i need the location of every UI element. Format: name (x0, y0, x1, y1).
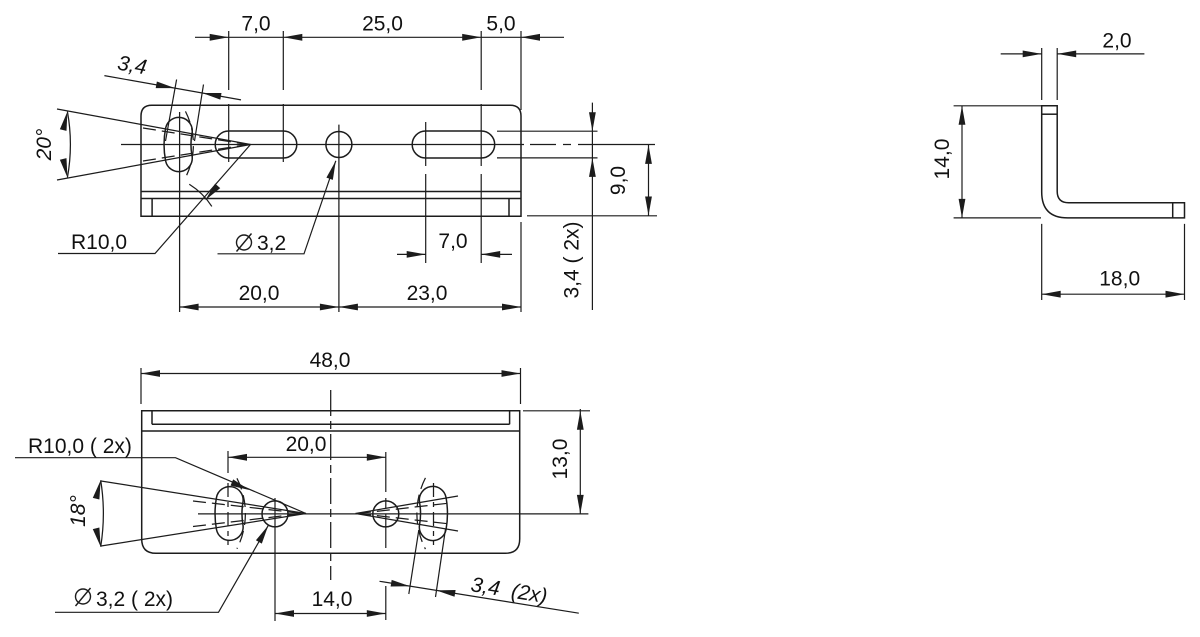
top dimension line 7.0/25.0/5.0 (195, 36, 564, 38)
front hole 3.2 (326, 132, 352, 158)
side view L profile (1042, 106, 1185, 218)
20.0/14.0 extension right hole centerline (385, 452, 387, 620)
20deg cone lower line (57, 145, 251, 181)
3.4(2x) ext line 1 (409, 530, 419, 594)
arrow 20.0 bottom right (367, 454, 386, 461)
bottom edge extension for 9.0 (527, 215, 657, 217)
arrow 7.0 left (210, 34, 229, 41)
2.0 dim line tails (1001, 53, 1145, 55)
front slot right obround (412, 131, 495, 158)
arrow 14.0 right (367, 610, 386, 617)
14.0 extension lines (954, 106, 1041, 218)
svg-text:18°: 18° (67, 495, 90, 527)
bottom view bend line (inner) (152, 423, 510, 425)
diameter symbol for 3,2 (237, 235, 252, 250)
20.0 / 23.0 dim line (180, 306, 521, 308)
arrow 18deg arc bottom (93, 528, 104, 548)
18.0 extension lines (1042, 224, 1185, 300)
extension line right edge bottom (520, 222, 522, 312)
arrow 9.0 bottom (645, 197, 652, 216)
3.4 slanted dim line (104, 76, 241, 100)
svg-text:3,2 ( 2x): 3,2 ( 2x) (96, 588, 173, 611)
bottom view right tab tick (509, 411, 511, 425)
arrow 25.0 left / 7.0 right (283, 34, 302, 41)
right dashed line lower (358, 514, 452, 525)
left hole centerline extension (274, 498, 276, 621)
left slot vertical center dashes (227, 483, 229, 545)
svg-text:14,0: 14,0 (312, 588, 353, 611)
arrow 14.0 left (275, 610, 294, 617)
right dashed line upper (358, 503, 452, 514)
bottom view left tab tick (151, 411, 153, 425)
18deg cone right lower line (356, 514, 459, 532)
arrow 48.0 right (502, 370, 521, 377)
arrow 18.0 left (1042, 291, 1061, 298)
svg-text:20,0: 20,0 (239, 282, 280, 305)
bottom view bend line 2 (142, 430, 520, 432)
svg-text:9,0: 9,0 (607, 166, 630, 195)
arrow 13.0 top (577, 411, 584, 430)
arrow 3.4(2x) slot right (436, 587, 456, 597)
48.0 extension left (140, 368, 142, 404)
side top tab tick (1042, 113, 1058, 115)
svg-text:3,4: 3,4 (116, 52, 149, 80)
arrow 18deg arc top (93, 479, 104, 499)
bottom curved slot left (215, 487, 243, 541)
front curved slot R10 (164, 117, 192, 171)
arrow 3.4 lower (202, 90, 222, 100)
arrow R10.0 leader (203, 184, 221, 203)
bottom curved slot right (419, 486, 447, 540)
svg-text:R10,0 ( 2x): R10,0 ( 2x) (28, 435, 132, 458)
front horizontal centerline (121, 144, 524, 146)
arrow 14.0 side bottom (959, 199, 966, 218)
3.4(2x) vertical dim line (591, 103, 593, 310)
svg-text:3,4 ( 2x): 3,4 ( 2x) (561, 221, 584, 298)
arrow 48.0 left (141, 370, 160, 377)
arrow 18.0 right (1166, 291, 1185, 298)
bottom hole left (262, 501, 288, 527)
14.0 dim line (275, 613, 386, 615)
3.4 slot width ext line 1 (166, 80, 177, 142)
right dashed pitch arc (417, 478, 426, 549)
front left tab tick (151, 199, 153, 217)
dia3.2(2x) leader (55, 525, 268, 612)
svg-text:23,0: 23,0 (407, 282, 448, 305)
front bend line upper (141, 191, 521, 193)
svg-text:7,0: 7,0 (241, 13, 270, 36)
13.0 top extension (523, 410, 590, 412)
20deg angle arc (67, 112, 70, 178)
48.0 extension right (520, 368, 522, 404)
slot2 edge extensions right (497, 131, 598, 158)
18deg left dashed line upper (193, 501, 303, 514)
3.4 slot width ext line 2 (195, 85, 204, 142)
bottom vertical centerline (330, 390, 332, 580)
20.0 dim line bottom view (228, 456, 386, 458)
3.4(2x) ext line 2 (436, 529, 446, 597)
14.0 dim line (961, 106, 963, 218)
arrow dia3.2 leader (326, 160, 339, 180)
arrow R10.0(2x) leader (230, 479, 250, 493)
9.0 dim line (648, 145, 650, 216)
arrow 7.0 lower left (407, 251, 426, 258)
arrow 23.0 left (339, 304, 358, 311)
arrow 20deg arc bottom (60, 158, 71, 178)
3.4(2x) dim line (380, 581, 579, 613)
48.0 dim line (141, 373, 521, 375)
bottom horizontal centerline (198, 513, 588, 515)
svg-text:5,0: 5,0 (486, 13, 515, 36)
front hole vertical centerline / dim extension (338, 125, 340, 312)
svg-text:25,0: 25,0 (362, 13, 403, 36)
svg-text:R10,0: R10,0 (71, 231, 127, 254)
extension line slot2 right arc center (480, 31, 482, 263)
arrow 25.0 right / 5.0 left (462, 34, 481, 41)
extension line slot2 left arc center (425, 122, 427, 263)
svg-text:20°: 20° (33, 129, 56, 162)
bottom hole right (373, 501, 399, 527)
arrow 7.0 lower right (481, 251, 500, 258)
R10.0(2x) leader (15, 458, 306, 514)
svg-text:13,0: 13,0 (549, 439, 572, 480)
2.0 extension lines (1042, 48, 1058, 100)
arrow 3.4 upper (156, 81, 176, 91)
20deg dashed position line lower (143, 145, 248, 162)
18deg cone left upper line (101, 481, 306, 514)
svg-text:2,0: 2,0 (1102, 30, 1131, 53)
arrow 14.0 side top (959, 106, 966, 125)
extension line right edge top (520, 31, 522, 110)
arrow 20.0 bottom left (228, 454, 247, 461)
front bend line lower (141, 198, 521, 200)
top dim extension line at slot1 left arc center (228, 31, 230, 162)
18deg cone right upper line (356, 496, 459, 514)
arrow 5.0 right (521, 34, 540, 41)
18deg angle arc (101, 480, 104, 547)
20deg cone upper line (57, 109, 251, 145)
arrow 2.0 right (1057, 51, 1076, 58)
arrow 20deg arc top (60, 111, 71, 131)
front slot 7.0 obround (215, 131, 297, 158)
arrow 9.0 top (645, 145, 652, 164)
svg-text:3,2: 3,2 (257, 232, 286, 255)
arrow 3.4(2x) bottom (589, 158, 596, 177)
side right tab tick (1172, 203, 1174, 218)
svg-text:18,0: 18,0 (1099, 268, 1140, 291)
diameter symbol for 3,2 (2x) (76, 589, 91, 604)
18deg cone left lower line (101, 514, 306, 547)
18.0 dim line (1042, 293, 1185, 295)
right slot vertical center dashes (433, 483, 435, 545)
dia 3.2 leader (218, 161, 336, 254)
svg-text:20,0: 20,0 (286, 433, 327, 456)
bottom view outline (142, 411, 520, 554)
front curved-slot vertical centerline / 20.0 extension (179, 112, 181, 312)
arrow 20.0 left (180, 304, 199, 311)
svg-text:14,0: 14,0 (931, 139, 954, 180)
front outline (141, 105, 521, 216)
left dashed pitch arc (237, 478, 245, 548)
R10.0 leader (58, 145, 251, 254)
20.0 extension left (slot center) (227, 451, 229, 473)
svg-text:48,0: 48,0 (310, 349, 351, 372)
svg-text:7,0: 7,0 (438, 230, 467, 253)
arrow 3.4(2x) slot left (391, 580, 411, 590)
arrow 23.0 right (502, 304, 521, 311)
18deg left dashed line lower (193, 514, 303, 527)
arrow 20.0 right (320, 304, 339, 311)
7.0 lower dim line (397, 253, 512, 255)
front solid radius arc segment (189, 184, 212, 206)
20deg dashed position line upper (143, 128, 248, 145)
front dashed pitch arc (185, 111, 193, 177)
front right tab tick (508, 199, 510, 217)
top dim extension line at slot1 right arc center (282, 31, 284, 162)
arrow 2.0 left (1023, 51, 1042, 58)
13.0 dim line (579, 409, 581, 514)
arrow 3.4(2x) top (589, 112, 596, 131)
svg-text:3,4 (2x): 3,4 (2x) (469, 573, 549, 608)
arrow dia3.2(2x) leader (256, 524, 271, 544)
arrow 13.0 bottom (577, 495, 584, 514)
